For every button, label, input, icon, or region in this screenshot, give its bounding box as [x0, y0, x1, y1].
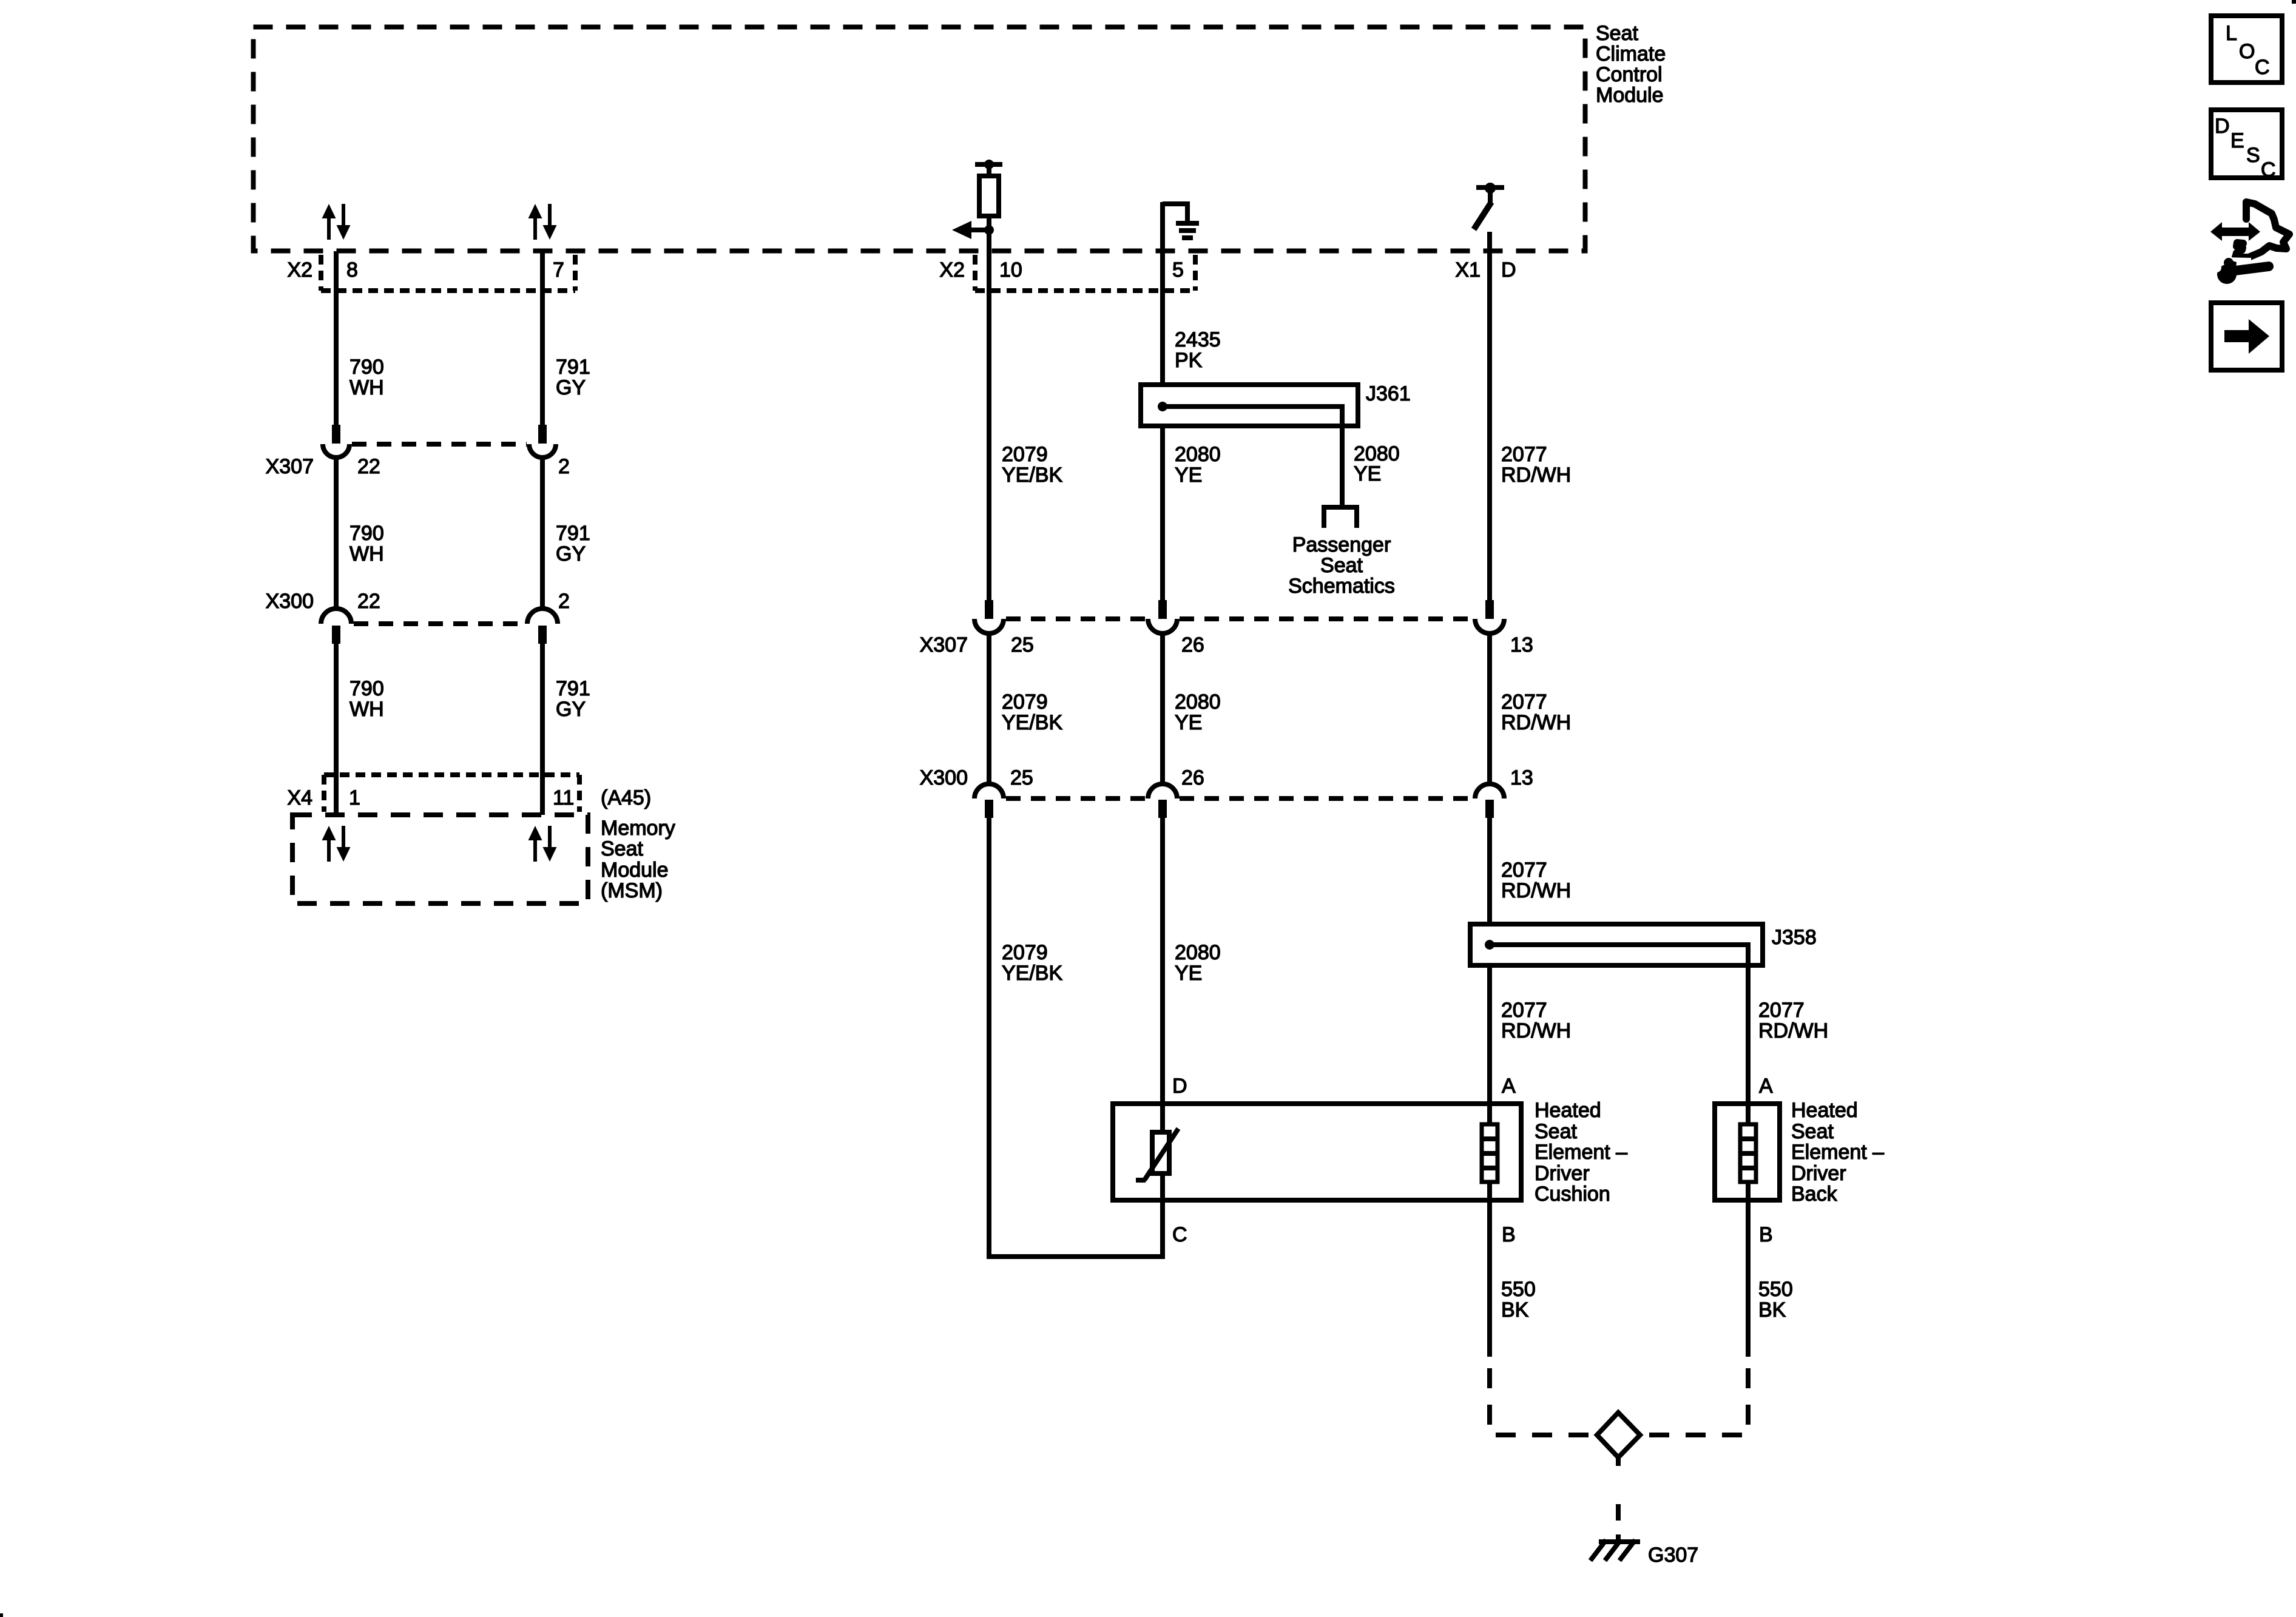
label: 790 WH — [349, 522, 384, 565]
sidebar icon: harness jump (double arrow, connector, wrench) — [2210, 202, 2289, 284]
label: 790 WH — [349, 677, 384, 721]
wire 2079 YE/BK segment 3 (X300 down and over to element C) — [989, 818, 1163, 1257]
wire 2079 YE/BK segment 1 (pin X2-10 to X307-25) — [987, 230, 991, 600]
label: 790 WH — [349, 356, 384, 399]
svg-text:26: 26 — [1181, 766, 1204, 789]
wire 2077 RD/WH branch (J358 to element A, driver back) — [1746, 965, 1751, 1124]
ground G307 — [1590, 1540, 1640, 1561]
page mark bottom-left corner — [0, 1613, 3, 1617]
label: 2079 YE/BK — [1002, 690, 1062, 734]
svg-text:YE: YE — [1354, 462, 1381, 485]
svg-text:A: A — [1759, 1075, 1773, 1098]
svg-text:7: 7 — [553, 258, 564, 282]
wire 791 GY segment 1 (pin 7 to X307-2) — [540, 251, 545, 425]
svg-text:YE: YE — [1175, 962, 1202, 985]
label: X4 pin 1 / pin 11 / (A45) — [287, 786, 651, 809]
svg-text:2077: 2077 — [1501, 859, 1547, 882]
label: 2080 YE — [1175, 941, 1221, 985]
svg-text:D: D — [1501, 258, 1516, 282]
svg-text:(A45): (A45) — [601, 786, 651, 809]
label: pin C — [1172, 1223, 1187, 1246]
label: 2435 PK — [1175, 328, 1221, 372]
wire 2077 RD/WH segment 4 (J358 to element A, driver cushion) — [1487, 965, 1492, 1124]
label: X307 25 / 26 / 13 — [920, 633, 1533, 657]
wire 790 WH segment 2 (X307 to X300) — [334, 457, 339, 609]
svg-text:Seat: Seat — [1791, 1120, 1834, 1143]
svg-text:A: A — [1502, 1075, 1516, 1098]
svg-text:(MSM): (MSM) — [601, 879, 663, 902]
bidirectional signal arrows at pin X2-7 — [528, 204, 557, 240]
thermistor (seat temperature sensor) — [1136, 1129, 1178, 1180]
svg-text:X300: X300 — [920, 766, 968, 789]
svg-text:WH: WH — [349, 542, 384, 565]
svg-text:791: 791 — [556, 677, 590, 700]
label: pin A (cushion) — [1502, 1075, 1516, 1098]
heated seat element driver cushion box — [1113, 1104, 1521, 1200]
splice pack J361 — [1141, 385, 1358, 428]
svg-text:2077: 2077 — [1501, 690, 1547, 714]
node: junction dot with signal arrow (pin X2-10) — [952, 221, 994, 239]
label: J358 — [1772, 926, 1817, 949]
splice pack J358 — [1470, 924, 1763, 968]
connector X300 terminal 25 (socket and pin) — [974, 784, 1004, 818]
label: 550 BK — [1501, 1278, 1536, 1322]
heated seat element driver back box — [1715, 1104, 1780, 1200]
wire 2077 RD/WH segment 2 (X307 to X300) — [1487, 633, 1492, 784]
svg-text:2435: 2435 — [1175, 328, 1221, 351]
connector X307 (left) dashed tie line — [352, 442, 527, 447]
wire dashed stub to ground G307 — [1616, 1457, 1621, 1542]
svg-text:25: 25 — [1010, 766, 1033, 789]
svg-text:5: 5 — [1172, 258, 1184, 282]
label: 791 GY — [556, 677, 590, 721]
svg-text:13: 13 — [1510, 633, 1533, 657]
svg-text:GY: GY — [556, 376, 586, 399]
wire 2080 YE segment 2 (X307 to X300) — [1160, 633, 1165, 784]
svg-text:1: 1 — [349, 786, 360, 809]
svg-text:RD/WH: RD/WH — [1501, 1019, 1571, 1042]
module A? Seat Climate Control Module dashed outline — [254, 27, 1585, 251]
svg-text:L: L — [2226, 22, 2237, 45]
svg-text:2079: 2079 — [1002, 690, 1048, 714]
sidebar icon: forward arrow box — [2211, 303, 2282, 370]
svg-text:YE: YE — [1175, 711, 1202, 734]
svg-text:550: 550 — [1758, 1278, 1793, 1301]
svg-text:25: 25 — [1011, 633, 1034, 657]
svg-text:X4: X4 — [287, 786, 312, 809]
connector X307 terminal 2 (pin and socket) — [529, 425, 556, 457]
svg-text:790: 790 — [349, 522, 384, 545]
svg-text:790: 790 — [349, 356, 384, 379]
wire 791 GY segment 2 (X307 to X300) — [540, 457, 545, 609]
label: 791 GY — [556, 522, 590, 565]
svg-text:Heated: Heated — [1791, 1099, 1858, 1122]
svg-text:J358: J358 — [1772, 926, 1817, 949]
wire 2077 RD/WH segment 3 (X300 to splice J358) — [1487, 818, 1492, 924]
internal ground symbol on pin X2-5 — [1163, 204, 1199, 238]
svg-text:Driver: Driver — [1791, 1162, 1846, 1185]
svg-text:2080: 2080 — [1175, 443, 1221, 466]
label: pin B (cushion) — [1502, 1223, 1516, 1246]
svg-text:BK: BK — [1758, 1298, 1786, 1322]
svg-text:RD/WH: RD/WH — [1501, 711, 1571, 734]
svg-text:E: E — [2230, 129, 2244, 152]
wire 790 WH segment 1 (pin 8 to X307-22) — [334, 251, 339, 425]
connector X307 terminal 22 (pin and socket) — [323, 425, 349, 457]
label: pin D — [1172, 1075, 1187, 1098]
svg-text:Passenger: Passenger — [1292, 533, 1391, 556]
svg-text:26: 26 — [1181, 633, 1204, 657]
bidirectional signal arrows at MSM pin 11 — [528, 826, 557, 862]
svg-text:X2: X2 — [939, 258, 965, 282]
bidirectional signal arrows at pin X2-8 — [322, 204, 351, 240]
label: Seat Climate Control Module — [1596, 22, 1666, 107]
resistor R (internal pull-up) on pin X2-10 — [975, 160, 1002, 230]
connector X2 (left) dashed box — [321, 255, 575, 291]
label: Passenger Seat Schematics — [1288, 533, 1395, 598]
svg-text:Element –: Element – — [1791, 1141, 1884, 1164]
svg-text:D: D — [1172, 1075, 1187, 1098]
svg-text:C: C — [1172, 1223, 1187, 1246]
sidebar icon: LOC box — [2211, 16, 2282, 83]
sidebar icon: DESC box — [2211, 110, 2282, 181]
connector X2 (middle) dashed box — [975, 255, 1195, 291]
svg-text:Seat: Seat — [1596, 22, 1638, 45]
wire 2080 YE through splice J361 — [1160, 426, 1165, 600]
label: Heated Seat Element - Driver Back — [1791, 1099, 1884, 1206]
svg-text:Module: Module — [1596, 84, 1664, 107]
svg-text:Seat: Seat — [1535, 1120, 1577, 1143]
svg-text:13: 13 — [1510, 766, 1533, 789]
svg-text:RD/WH: RD/WH — [1501, 464, 1571, 487]
module A45 Memory Seat Module dashed outline — [292, 815, 588, 903]
svg-text:WH: WH — [349, 376, 384, 399]
svg-text:X307: X307 — [266, 455, 314, 478]
wire 2435 PK segment (pin X2-5 to splice J361) — [1160, 202, 1165, 385]
wire element cushion internal (A to B through heater) — [1487, 1182, 1492, 1357]
svg-text:8: 8 — [346, 258, 358, 282]
label: X300 22 / 2 — [266, 590, 570, 613]
svg-text:X1: X1 — [1455, 258, 1481, 282]
svg-text:Element –: Element – — [1535, 1141, 1627, 1164]
heater element symbol (driver back) — [1740, 1124, 1756, 1182]
wire 2080 YE segment 3 (X300 to element D) — [1160, 818, 1165, 1132]
connector X300 terminal 2 (socket and pin) — [527, 609, 558, 644]
connector X300 terminal 26 (socket and pin) — [1148, 784, 1177, 818]
wire 2080 YE branch (J361 to passenger seat) — [1340, 426, 1345, 505]
label: 2077 RD/WH — [1501, 859, 1571, 902]
connector X307 terminal 25 (pin and socket) — [974, 600, 1004, 633]
label: 550 BK — [1758, 1278, 1793, 1322]
svg-text:Module: Module — [601, 859, 669, 882]
wire 791 GY segment 3 (X300 to X4-11) — [540, 644, 545, 815]
svg-text:22: 22 — [357, 455, 380, 478]
wire 790 WH segment 3 (X300 to X4-1) — [334, 644, 339, 815]
wire 2077 RD/WH segment 1 (pin X1-D to X307-13) — [1487, 232, 1492, 600]
svg-text:791: 791 — [556, 356, 590, 379]
label: 2080 YE — [1354, 442, 1400, 485]
connector X300 (left) dashed tie line — [354, 621, 525, 626]
svg-text:Climate: Climate — [1596, 42, 1666, 66]
svg-text:2077: 2077 — [1501, 443, 1547, 466]
svg-text:B: B — [1759, 1223, 1773, 1246]
connector X300 (middle) dashed tie line — [1006, 796, 1473, 801]
svg-text:X300: X300 — [266, 590, 314, 613]
svg-text:C: C — [2261, 158, 2276, 181]
label: X2 pin 8 / pin 7 — [287, 258, 564, 282]
svg-text:BK: BK — [1501, 1298, 1529, 1322]
svg-text:WH: WH — [349, 698, 384, 721]
label: X300 25 / 26 / 13 — [920, 766, 1533, 789]
svg-text:2080: 2080 — [1175, 690, 1221, 714]
off-page connector: Passenger Seat Schematics — [1324, 507, 1357, 528]
svg-text:J361: J361 — [1366, 382, 1411, 405]
svg-text:2079: 2079 — [1002, 941, 1048, 964]
label: 2077 RD/WH — [1501, 443, 1571, 487]
svg-text:YE: YE — [1175, 464, 1202, 487]
label: 2080 YE — [1175, 690, 1221, 734]
svg-text:791: 791 — [556, 522, 590, 545]
svg-text:2077: 2077 — [1758, 999, 1805, 1022]
label: pin B (back) — [1759, 1223, 1773, 1246]
label: G307 — [1648, 1544, 1698, 1567]
bidirectional signal arrows at MSM pin 1 — [322, 826, 351, 862]
label: Memory Seat Module (MSM) — [601, 817, 675, 902]
svg-text:RD/WH: RD/WH — [1501, 879, 1571, 902]
connector X300 terminal 22 (socket and pin) — [321, 609, 351, 644]
svg-text:Heated: Heated — [1535, 1099, 1601, 1122]
svg-text:Seat: Seat — [601, 837, 643, 860]
label: Heated Seat Element - Driver Cushion — [1535, 1099, 1627, 1206]
svg-text:GY: GY — [556, 542, 586, 565]
wire 550 BK dashed run (back B to ground splice) — [1641, 1368, 1748, 1435]
switch (heated seat control) on pin X1-D — [1474, 183, 1504, 229]
svg-text:790: 790 — [349, 677, 384, 700]
heater element symbol (driver cushion) — [1482, 1124, 1497, 1182]
wire element back internal (A to B through heater) — [1746, 1182, 1751, 1357]
label: J361 — [1366, 382, 1411, 405]
splice diamond (ground distribution) — [1597, 1413, 1640, 1457]
svg-text:550: 550 — [1501, 1278, 1536, 1301]
svg-text:D: D — [2215, 115, 2230, 138]
svg-text:PK: PK — [1175, 349, 1203, 372]
svg-text:C: C — [2255, 56, 2270, 79]
label: pin A (back) — [1759, 1075, 1773, 1098]
label: X2 pin 10 / pin 5 — [939, 258, 1184, 282]
svg-text:2: 2 — [558, 590, 570, 613]
svg-text:G307: G307 — [1648, 1544, 1698, 1567]
svg-text:2080: 2080 — [1175, 941, 1221, 964]
svg-text:X2: X2 — [287, 258, 312, 282]
svg-text:2079: 2079 — [1002, 443, 1048, 466]
svg-text:2: 2 — [558, 455, 570, 478]
svg-text:B: B — [1502, 1223, 1516, 1246]
connector X4 dashed box — [324, 775, 579, 812]
svg-text:Seat: Seat — [1320, 554, 1363, 577]
label: 2077 RD/WH — [1758, 999, 1828, 1042]
wire 550 BK dashed run (cushion B to ground splice) — [1490, 1368, 1596, 1435]
svg-text:Memory: Memory — [601, 817, 675, 840]
svg-text:YE/BK: YE/BK — [1002, 711, 1062, 734]
svg-text:Schematics: Schematics — [1288, 575, 1395, 598]
svg-text:11: 11 — [553, 786, 574, 809]
label: 2080 YE — [1175, 443, 1221, 487]
svg-text:Control: Control — [1596, 63, 1663, 86]
label: 791 GY — [556, 356, 590, 399]
svg-text:22: 22 — [357, 590, 380, 613]
svg-text:2077: 2077 — [1501, 999, 1547, 1022]
svg-text:X307: X307 — [920, 633, 968, 657]
connector X300 terminal 13 (socket and pin) — [1475, 784, 1504, 818]
svg-text:10: 10 — [999, 258, 1022, 282]
label: X1 pin D — [1455, 258, 1516, 282]
svg-text:Back: Back — [1791, 1183, 1838, 1206]
page mark top-right corner — [2292, 0, 2296, 4]
label: 2077 RD/WH — [1501, 690, 1571, 734]
svg-text:YE/BK: YE/BK — [1002, 464, 1062, 487]
svg-text:RD/WH: RD/WH — [1758, 1019, 1828, 1042]
svg-text:O: O — [2239, 40, 2255, 63]
label: X307 22 / 2 — [266, 455, 570, 478]
label: 2077 RD/WH — [1501, 999, 1571, 1042]
svg-text:Cushion: Cushion — [1535, 1183, 1610, 1206]
connector X307 terminal 13 (pin and socket) — [1475, 600, 1504, 633]
svg-text:Driver: Driver — [1535, 1162, 1590, 1185]
svg-text:YE/BK: YE/BK — [1002, 962, 1062, 985]
label: 2079 YE/BK — [1002, 941, 1062, 985]
label: 2079 YE/BK — [1002, 443, 1062, 487]
connector X307 terminal 26 (pin and socket) — [1148, 600, 1177, 633]
wire 2079 YE/BK segment 2 (X307 to X300) — [987, 633, 991, 784]
svg-text:S: S — [2246, 144, 2260, 167]
svg-text:GY: GY — [556, 698, 586, 721]
connector X307 (middle) dashed tie line — [1006, 616, 1473, 621]
